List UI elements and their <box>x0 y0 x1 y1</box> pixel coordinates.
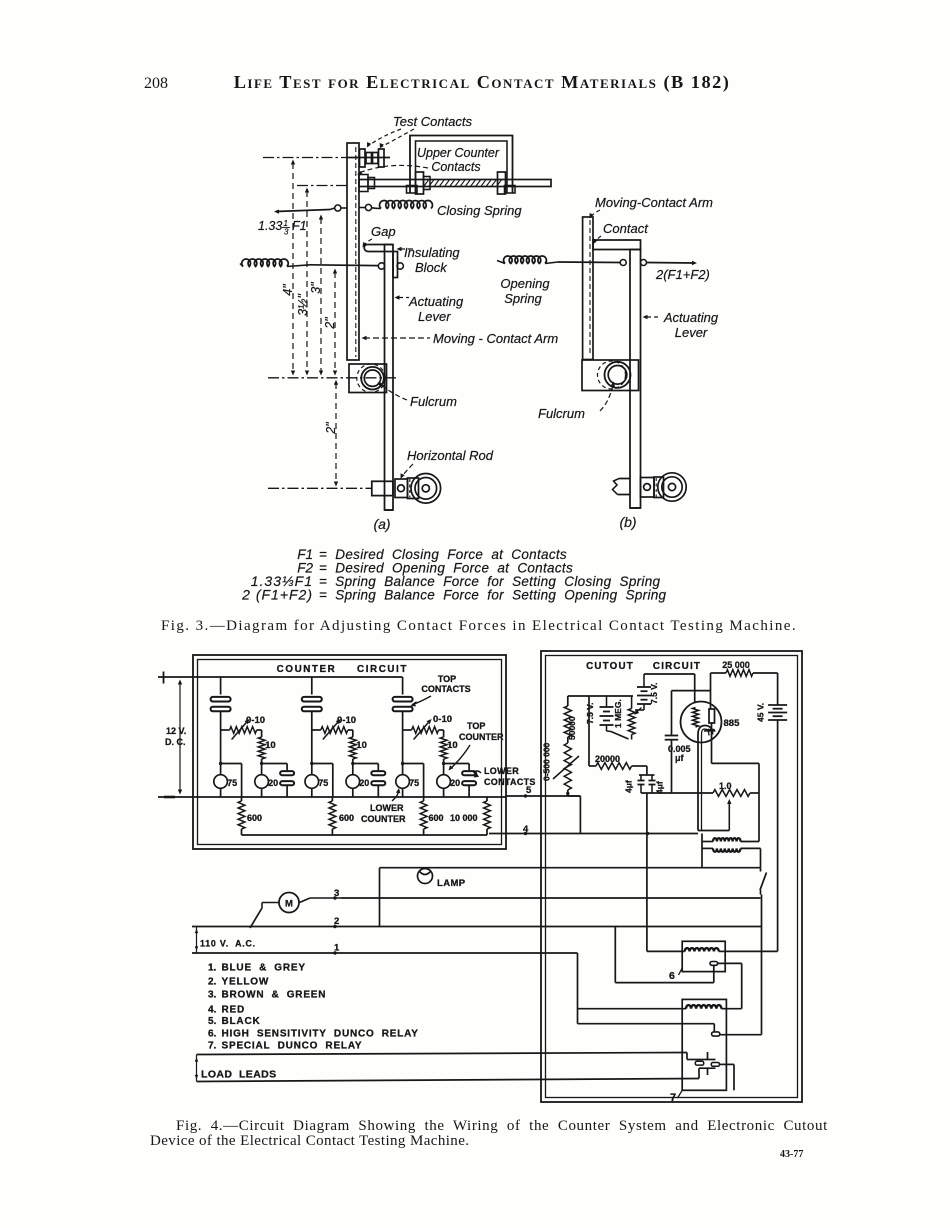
stage2 label 0-10 <box>337 715 356 726</box>
svg-text:3: 3 <box>284 228 289 237</box>
stage1 top contacts pair <box>211 677 231 711</box>
wire list item 6. HIGH SENSITIVITY DUNCO RELAY <box>208 1028 419 1039</box>
svg-text:BLUE & GREY: BLUE & GREY <box>222 963 306 974</box>
svg-text:F1: F1 <box>292 219 307 233</box>
wire list item 4. RED <box>208 1005 245 1016</box>
label 4 <box>523 824 529 835</box>
tube plate <box>709 673 715 723</box>
fig3a dimension reference centerlines <box>263 158 396 489</box>
wire: filament top <box>644 674 695 703</box>
stage2 top contacts pair <box>302 677 322 711</box>
label LOWER CONTACTS with arrow <box>474 766 536 787</box>
stage2 meter 75 <box>305 775 328 797</box>
stage1 resistor 10 <box>258 730 265 764</box>
running head title <box>234 72 731 93</box>
svg-text:M: M <box>285 899 293 910</box>
svg-text:0-500 000: 0-500 000 <box>542 742 552 781</box>
svg-text:25 000: 25 000 <box>722 660 750 670</box>
stage2 resistor 10 <box>349 730 356 764</box>
wire: 45V battery down to relay 6 <box>725 720 777 951</box>
svg-text:4μf: 4μf <box>655 781 665 794</box>
label TOP CONTACTS with arrow <box>411 674 471 706</box>
resistor 1.0 <box>713 790 759 797</box>
svg-text:= Spring Balance Force for: = Spring Balance Force for Setting Openi… <box>319 588 667 603</box>
fig3a dimension line 2in lower <box>324 380 338 487</box>
label 25 000 <box>722 660 750 670</box>
label 7.5 V inner <box>585 703 595 724</box>
resistor 20000 <box>589 763 647 770</box>
label TOP COUNTER with arrow <box>449 721 504 771</box>
svg-text:COUNTER: COUNTER <box>361 814 406 824</box>
wire list item 7. SPECIAL DUNCO RELAY <box>208 1041 362 1052</box>
stage2 wire contacts to meter <box>311 711 313 775</box>
svg-text:0-10: 0-10 <box>433 714 452 725</box>
svg-text:7: 7 <box>670 1092 676 1104</box>
svg-text:2": 2" <box>324 422 338 435</box>
svg-text:2": 2" <box>323 317 337 330</box>
wire: lamp riser <box>379 868 381 927</box>
svg-text:BROWN & GREEN: BROWN & GREEN <box>222 989 327 1000</box>
svg-text:LOWER: LOWER <box>370 803 404 813</box>
stage3 meter 75 <box>396 775 419 797</box>
svg-text:5: 5 <box>526 785 532 796</box>
fig3a horizontal screw rod <box>359 172 551 194</box>
svg-text:4.: 4. <box>208 1005 217 1016</box>
svg-text:1.0: 1.0 <box>719 781 732 791</box>
svg-text:43-77: 43-77 <box>780 1149 803 1160</box>
stage1 label 0-10 <box>246 715 265 726</box>
transformer primary coil <box>702 838 759 841</box>
fig3b fulcrum block <box>582 360 639 391</box>
svg-text:20000: 20000 <box>595 754 620 764</box>
wire: load contact right <box>719 1064 734 1090</box>
wire: caps to relay6 coil <box>647 793 685 951</box>
fig3b actuating lever <box>630 250 641 509</box>
svg-text:HIGH SENSITIVITY DUNCO RELA: HIGH SENSITIVITY DUNCO RELAY <box>222 1028 419 1039</box>
wire: cathode to tap <box>698 830 729 832</box>
fig3a horizontal rod and roller <box>372 474 441 504</box>
svg-text:Actuating: Actuating <box>408 294 464 309</box>
minus terminal <box>164 796 175 799</box>
load leads bracket and label <box>195 1055 277 1082</box>
wire: counter bottom bus <box>242 834 488 836</box>
cutout circuit outer border <box>541 651 802 1102</box>
wire list item 2. YELLOW <box>208 976 269 987</box>
label Contact (b) <box>594 221 650 244</box>
fig3a moving-contact arm <box>347 143 359 360</box>
wire: relay6 contact to relay7 coil <box>741 963 743 1008</box>
plus terminal <box>163 672 165 684</box>
wire: secondary to lamp line <box>760 848 762 867</box>
label Moving-Contact Arm (a) <box>362 331 559 346</box>
stage1 meter 20 <box>255 764 278 798</box>
svg-text:45 V.: 45 V. <box>756 703 766 722</box>
wire: line 1 blue-grey <box>192 951 578 954</box>
label CUTOUT CIRCUIT <box>586 661 701 672</box>
stage3 meter 20 <box>437 764 460 798</box>
svg-text:20: 20 <box>359 778 369 788</box>
wire: load lead top <box>197 1053 700 1060</box>
relay 7 load contacts <box>695 1052 719 1075</box>
label Upper Counter Contacts <box>357 146 500 175</box>
svg-text:7.5 V.: 7.5 V. <box>649 683 659 704</box>
label Actuating Lever (a) <box>395 294 464 324</box>
svg-text:885: 885 <box>724 718 741 729</box>
fig3a dimension line 3in <box>309 215 323 376</box>
fig3a dimension line 2in upper <box>323 269 337 376</box>
stage3 wire contacts to meter <box>402 711 404 775</box>
svg-text:Lever: Lever <box>675 325 708 340</box>
legend 2(F1+F2) <box>241 587 666 603</box>
svg-text:2 (F1+F2): 2 (F1+F2) <box>241 587 313 603</box>
fig3b lever top bar <box>593 240 641 250</box>
legend F2 <box>297 561 573 576</box>
relay 7 contact <box>712 1032 762 1036</box>
wire: load lead bottom <box>197 1068 700 1081</box>
svg-text:D. C.: D. C. <box>165 737 186 747</box>
svg-text:LOWER: LOWER <box>484 766 519 776</box>
fig3a dimension line 4in <box>281 160 295 376</box>
svg-text:600: 600 <box>339 813 354 823</box>
lamp <box>418 869 433 884</box>
svg-text:YELLOW: YELLOW <box>222 976 270 987</box>
fig3a upper counter contacts frame <box>407 136 516 194</box>
svg-text:Insulating: Insulating <box>404 245 460 260</box>
svg-text:RED: RED <box>222 1005 246 1016</box>
wire: branch to relay7 contact <box>578 1024 715 1032</box>
svg-text:75: 75 <box>409 778 419 788</box>
stage1 lower contacts pair <box>260 762 294 797</box>
label 1 <box>334 943 340 954</box>
label 110 V. A.C. with bracket <box>195 927 256 954</box>
switch blade grid battery <box>607 731 629 739</box>
wire: line 2 yellow <box>192 925 762 928</box>
tube cathode hook <box>698 725 715 830</box>
wire: jog line5 to line4 <box>568 796 581 834</box>
switch to motor line <box>760 868 767 895</box>
wire list item 3. BROWN & GREEN <box>208 989 326 1000</box>
wire: plate to transformer primary <box>712 723 760 842</box>
rheostat 0-500000 <box>553 743 579 796</box>
stage3 resistor 10 <box>440 730 447 764</box>
svg-text:3½": 3½" <box>296 294 310 316</box>
svg-text:110 V. A.C.: 110 V. A.C. <box>200 939 256 949</box>
wire: grid branch top <box>568 695 633 697</box>
label Moving-Contact Arm (b) <box>590 195 714 219</box>
stage3 bypass wire <box>401 762 424 797</box>
label 7.5 V upper <box>649 683 659 704</box>
label 10 000 <box>450 813 478 823</box>
svg-text:Gap: Gap <box>371 224 396 239</box>
stage2 meter 20 <box>346 764 369 798</box>
svg-text:20: 20 <box>450 778 460 788</box>
label 20000 <box>595 754 620 764</box>
wire: line 5 black <box>506 794 580 797</box>
wire: lamp-motor column to relay7 contact <box>761 895 763 1035</box>
svg-text:μf: μf <box>675 753 685 763</box>
svg-text:2.: 2. <box>208 976 217 987</box>
stage1 rheostat 0-10 <box>221 719 262 740</box>
svg-text:7.5 V.: 7.5 V. <box>585 703 595 724</box>
label 5 <box>526 785 532 796</box>
svg-text:SPECIAL DUNCO RELAY: SPECIAL DUNCO RELAY <box>222 1041 363 1052</box>
resistor 50000 <box>564 696 571 743</box>
battery 7.5V inner <box>600 696 614 731</box>
label 12 V D.C. with dimension arrows <box>165 680 186 795</box>
stage2 bypass wire <box>310 762 333 797</box>
label 6 <box>669 968 682 982</box>
svg-text:Fig. 3.—Diagram for Adjusting: Fig. 3.—Diagram for Adjusting Contact Fo… <box>161 618 797 634</box>
fig3a test contacts spools <box>347 149 390 167</box>
label 3 <box>334 888 339 899</box>
fig3a closing spring <box>274 201 433 214</box>
svg-text:LAMP: LAMP <box>437 878 466 889</box>
svg-text:Moving - Contact Arm: Moving - Contact Arm <box>433 331 558 346</box>
label 1.0 <box>719 781 732 791</box>
wire: cathode rail <box>641 792 713 794</box>
fig3a dimension line 3.5in <box>296 188 310 376</box>
svg-text:10: 10 <box>356 740 367 751</box>
motor M <box>250 893 341 929</box>
label Fulcrum (b) <box>538 382 615 422</box>
svg-text:BLACK: BLACK <box>222 1016 261 1027</box>
svg-text:TOP: TOP <box>467 721 485 731</box>
capacitor 0.005 uf <box>665 691 711 793</box>
relay 7 coil <box>686 1005 742 1009</box>
stage3 resistor 600 <box>420 797 427 835</box>
page number 208 <box>144 75 168 92</box>
svg-text:Device of the Electrical Conta: Device of the Electrical Contact Testing… <box>150 1133 469 1149</box>
label Horizontal Rod <box>401 448 494 479</box>
rheostat 1 MEG <box>628 696 641 740</box>
tap arrow of 1.0 <box>727 799 731 831</box>
label COUNTER CIRCUIT <box>277 664 408 675</box>
svg-text:20: 20 <box>268 778 278 788</box>
resistor 25000 <box>711 670 778 677</box>
fig3b horizontal rod and roller <box>613 473 687 501</box>
label Closing Spring <box>437 203 522 218</box>
label Gap <box>363 224 396 248</box>
svg-text:Moving-Contact Arm: Moving-Contact Arm <box>595 195 713 210</box>
svg-text:COUNTER: COUNTER <box>277 664 337 675</box>
svg-text:2: 2 <box>334 916 339 927</box>
stage1 resistor 600 <box>238 797 245 835</box>
svg-text:TOP: TOP <box>438 674 456 684</box>
label 4uf right <box>655 781 665 794</box>
wire: transformer left leg <box>701 834 703 868</box>
svg-text:Contacts: Contacts <box>431 160 480 174</box>
stage1 label 10 <box>265 740 276 751</box>
label 1 MEG <box>613 699 623 728</box>
wire: lamp line <box>380 867 761 869</box>
svg-text:CIRCUIT: CIRCUIT <box>357 664 408 675</box>
stage2 label 10 <box>356 740 367 751</box>
svg-text:2(F1+F2): 2(F1+F2) <box>655 267 710 282</box>
relay 6 box <box>682 941 725 971</box>
label 1.33 1/3 F1 <box>258 219 307 237</box>
fig3a fulcrum block <box>349 364 387 393</box>
fig4 caption line2 <box>150 1133 469 1149</box>
tube grid zigzag <box>693 708 699 728</box>
label 2 <box>334 916 339 927</box>
svg-text:0-10: 0-10 <box>337 715 356 726</box>
wire: line1 drop <box>577 953 579 1024</box>
counter circuit outer border <box>193 655 506 849</box>
label (a) <box>373 516 390 532</box>
wire: branch vertical to 20000 <box>588 696 590 766</box>
svg-text:COUNTER: COUNTER <box>459 732 504 742</box>
label LAMP <box>437 878 466 889</box>
label 50000 <box>567 716 577 740</box>
label Test Contacts <box>367 114 473 149</box>
wire: line 4 red <box>489 832 698 835</box>
svg-text:75: 75 <box>318 778 328 788</box>
relay 6 contact <box>710 962 742 966</box>
label 2(F1+F2) <box>655 267 710 282</box>
svg-text:0-10: 0-10 <box>246 715 265 726</box>
label 45 V <box>756 703 766 722</box>
fig3a insulating block <box>364 244 397 277</box>
label 885 <box>724 718 741 729</box>
stage3 top contacts pair <box>393 677 413 711</box>
label Insulating Block <box>397 245 461 275</box>
tube 885 envelope <box>681 702 722 743</box>
svg-text:12 V.: 12 V. <box>166 726 186 736</box>
svg-text:1.33: 1.33 <box>258 219 282 233</box>
svg-text:CUTOUT: CUTOUT <box>586 661 634 672</box>
svg-text:10: 10 <box>265 740 276 751</box>
wire: line1 to relay7 coil <box>578 1008 687 1010</box>
battery 45V <box>768 673 787 720</box>
stage2 resistor 600 <box>329 797 336 835</box>
svg-text:Lever: Lever <box>418 309 451 324</box>
svg-text:50000: 50000 <box>567 716 577 740</box>
stage2 lower contacts pair <box>351 762 385 797</box>
svg-text:Opening: Opening <box>500 276 550 291</box>
stage1 wire contacts to meter <box>220 711 222 775</box>
svg-text:4μf: 4μf <box>624 780 634 793</box>
fig3 caption <box>161 618 797 634</box>
stage3 label 600 <box>429 813 444 823</box>
label 0-500 000 <box>542 742 552 781</box>
label Fulcrum (a) <box>378 382 458 409</box>
svg-text:(b): (b) <box>619 514 636 530</box>
svg-text:5.: 5. <box>208 1016 217 1027</box>
svg-text:4: 4 <box>523 824 529 835</box>
fig4 caption line1 <box>176 1118 828 1134</box>
wire list item 1. BLUE & GREY <box>208 963 306 974</box>
svg-text:6.: 6. <box>208 1028 217 1039</box>
label LOWER COUNTER with arrow <box>361 788 406 824</box>
label (b) <box>619 514 636 530</box>
fig3b moving-contact arm <box>583 217 593 360</box>
label Actuating Lever (b) <box>643 310 719 340</box>
stage3 label 0-10 <box>433 714 452 725</box>
svg-text:CONTACTS: CONTACTS <box>421 684 470 694</box>
stage2 label 600 <box>339 813 354 823</box>
svg-text:1.: 1. <box>208 963 217 974</box>
relay 6 coil <box>685 948 726 951</box>
counter circuit inner border <box>198 660 502 845</box>
label 0.005 uf <box>668 744 691 763</box>
resistor 10000 <box>484 797 491 835</box>
svg-text:Life Test for Electrical Conta: Life Test for Electrical Contact Materia… <box>234 72 731 93</box>
svg-text:LOAD LEADS: LOAD LEADS <box>201 1069 277 1081</box>
label Opening Spring <box>500 276 550 306</box>
svg-text:3.: 3. <box>208 989 217 1000</box>
svg-text:10 000: 10 000 <box>450 813 478 823</box>
svg-text:6: 6 <box>669 970 675 982</box>
svg-text:3": 3" <box>309 282 323 294</box>
label 7 <box>670 1090 682 1104</box>
label 4uf left <box>624 780 634 793</box>
stage1 label 600 <box>247 813 262 823</box>
svg-text:208: 208 <box>144 75 168 92</box>
battery 7.5V upper <box>635 674 651 710</box>
svg-text:Fulcrum: Fulcrum <box>538 406 585 421</box>
transformer secondary coil <box>702 848 761 851</box>
svg-text:Actuating: Actuating <box>663 310 719 325</box>
svg-text:Test Contacts: Test Contacts <box>393 114 473 129</box>
wire list item 5. BLACK <box>208 1016 261 1027</box>
svg-text:1: 1 <box>334 943 340 954</box>
svg-text:10: 10 <box>447 740 458 751</box>
legend 1.33 1/3 F1 <box>251 573 661 589</box>
fig3a actuating lever <box>385 245 394 511</box>
stage3 rheostat 0-10 <box>403 719 444 740</box>
stage3 lower contacts pair <box>442 762 476 797</box>
svg-text:600: 600 <box>247 813 262 823</box>
svg-text:7.: 7. <box>208 1041 217 1052</box>
fig3b opening spring line 2(F1+F2) <box>497 256 697 266</box>
stage1 meter 75 <box>214 775 237 797</box>
wire: line2 branch to relay6 contact <box>615 927 714 983</box>
svg-text:Upper Counter: Upper Counter <box>417 146 500 160</box>
svg-text:CIRCUIT: CIRCUIT <box>653 661 701 672</box>
svg-text:75: 75 <box>227 778 237 788</box>
svg-text:600: 600 <box>429 813 444 823</box>
stage3 label 10 <box>447 740 458 751</box>
wire: line 3 brown-green <box>333 896 760 899</box>
cutout circuit inner border <box>546 656 798 1098</box>
fig3a opening spring and eyelets <box>240 259 403 269</box>
svg-text:Fulcrum: Fulcrum <box>410 394 457 409</box>
svg-text:Spring: Spring <box>504 291 542 306</box>
svg-text:4": 4" <box>281 284 295 296</box>
plate number 43-77 <box>780 1149 803 1160</box>
svg-text:Fig. 4.—Circuit Diagram Showin: Fig. 4.—Circuit Diagram Showing the Wiri… <box>176 1118 828 1134</box>
svg-text:(a): (a) <box>373 516 390 532</box>
stage2 rheostat 0-10 <box>312 719 353 740</box>
wire: negative bottom rail <box>158 796 506 798</box>
relay 7 box <box>682 999 726 1090</box>
svg-text:Horizontal Rod: Horizontal Rod <box>407 448 494 463</box>
svg-text:Block: Block <box>415 260 448 275</box>
svg-text:Closing Spring: Closing Spring <box>437 203 522 218</box>
svg-text:1 MEG.: 1 MEG. <box>613 699 623 728</box>
wire: positive top rail <box>158 676 403 678</box>
legend F1 <box>297 547 567 562</box>
stage1 bypass wire <box>219 762 242 797</box>
capacitors 4uf 4uf <box>638 766 656 793</box>
svg-text:Contact: Contact <box>603 221 649 236</box>
